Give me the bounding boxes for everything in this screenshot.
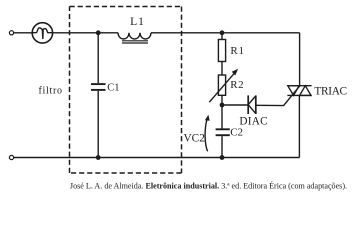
wire L1 to right corner: [151, 32, 300, 34]
potentiometer R2: [209, 69, 238, 102]
node: junction bottom wire / C1: [96, 155, 101, 160]
DIAC: [248, 95, 256, 114]
right vertical wire down to TRIAC: [299, 33, 301, 86]
resistor R1: [218, 33, 225, 62]
svg-text:L1: L1: [130, 16, 145, 28]
node: junction top wire / R1: [220, 30, 225, 35]
svg-text:José L. A. de Almeida. Eletrôn: José L. A. de Almeida. Eletrônica indust…: [70, 181, 347, 191]
VC2 arrow: [205, 120, 208, 152]
capacitor C2: [216, 129, 230, 157]
inductor L1: [118, 33, 151, 43]
terminal top-left: [9, 31, 13, 35]
wire top-left to source: [14, 32, 33, 34]
bottom wire: [14, 157, 300, 159]
wire R1 to R2: [221, 62, 223, 76]
node: junction bottom wire / C2: [220, 155, 225, 160]
capacitor C1: [91, 33, 106, 158]
wire R2 to node: [221, 95, 223, 129]
wire node to DIAC: [222, 104, 248, 106]
svg-text:C2: C2: [230, 126, 243, 138]
node: junction top wire / C1: [96, 30, 101, 35]
svg-text:VC2: VC2: [184, 133, 206, 145]
svg-text:TRIAC: TRIAC: [314, 85, 346, 97]
svg-text:filtro: filtro: [39, 86, 63, 97]
svg-text:DIAC: DIAC: [239, 116, 267, 128]
node: junction R2 / C2 / DIAC: [220, 103, 225, 108]
svg-text:R2: R2: [230, 79, 244, 91]
svg-text:C1: C1: [107, 83, 119, 94]
AC source T: [32, 23, 52, 43]
terminal bottom-left: [9, 155, 13, 159]
TRIAC: [287, 86, 311, 158]
dashed filter box: [70, 7, 182, 174]
wire source to L1: [53, 32, 118, 34]
wire DIAC to TRIAC gate: [256, 86, 300, 106]
svg-text:R1: R1: [230, 45, 244, 57]
